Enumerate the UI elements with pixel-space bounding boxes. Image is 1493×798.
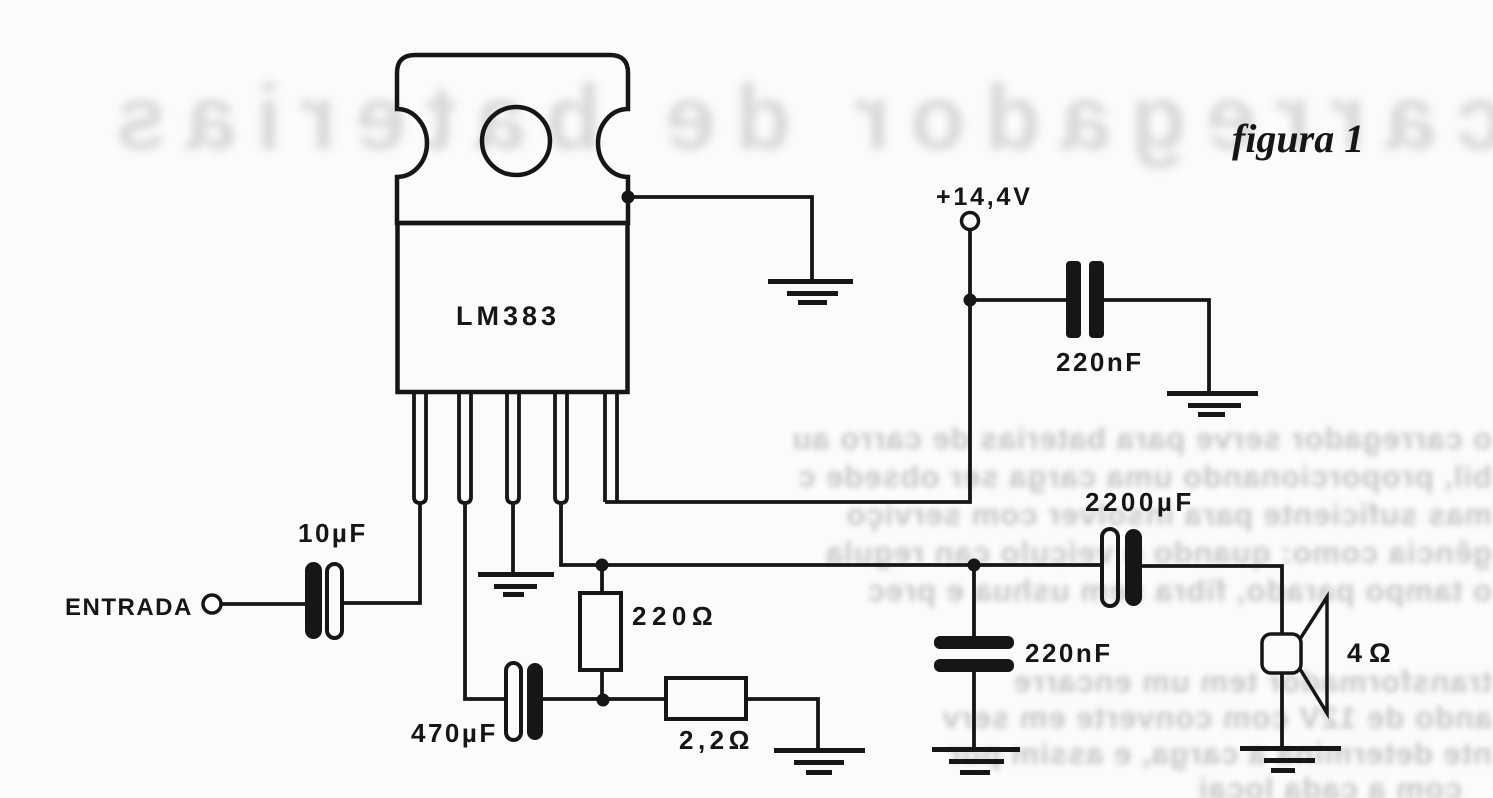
U1 pin 3 (507, 392, 519, 503)
svg-text:220Ω: 220Ω (632, 601, 718, 631)
wire input to C1 (221, 602, 305, 606)
ghost headline (bleed-through, mirrored) (55, 66, 1493, 170)
svg-text:+14,4V: +14,4V (936, 183, 1033, 211)
ghost paragraph B (bleed-through, mirrored) (700, 664, 1492, 700)
wire speaker to ground (1280, 673, 1284, 747)
U1 pin 5 (605, 392, 617, 502)
ground G6 (1240, 746, 1341, 773)
svg-text:220nF: 220nF (1025, 638, 1113, 668)
speaker LS1 (1262, 634, 1301, 673)
node feedback top (596, 559, 609, 572)
resistor R1 220 ohm (600, 565, 604, 593)
ground G5 (932, 747, 1020, 775)
U1 pin 2 (459, 392, 471, 503)
svg-text:figura 1: figura 1 (1232, 116, 1364, 161)
svg-text:470µF: 470µF (411, 718, 498, 748)
ground G2 (1167, 391, 1258, 417)
capacitor C4 220nF bottom (972, 565, 976, 636)
capacitor C2 2200uF (1102, 529, 1118, 606)
svg-text:LM383: LM383 (456, 301, 560, 331)
node tab (622, 191, 635, 204)
ground G4 (774, 748, 865, 775)
capacitor 220nF top (1066, 261, 1104, 338)
wire C2 to speaker (1142, 566, 1282, 634)
svg-text:220nF: 220nF (1056, 347, 1144, 377)
wire pin2 down (465, 503, 506, 699)
wire C1 to pin1 (342, 503, 420, 603)
input terminal (203, 595, 221, 613)
node output (968, 559, 981, 572)
U1 pin 1 (414, 392, 426, 503)
wire R2 to ground (746, 699, 818, 749)
wire pin3 to ground (511, 503, 515, 573)
wire tab to ground (628, 197, 812, 281)
svg-text:2,2Ω: 2,2Ω (679, 725, 754, 755)
resistor R2 2,2 ohm (666, 678, 746, 719)
capacitor C1 10uF (305, 562, 322, 639)
svg-text:10µF: 10µF (298, 518, 368, 548)
ghost paragraph A (bleed-through, mirrored) (750, 421, 1492, 457)
wire cap to ground (1104, 300, 1209, 392)
ground G3 (478, 572, 554, 597)
op-amp U1 LM383 tab outline (397, 55, 628, 223)
U1 pin 4 (555, 392, 567, 503)
node supply (964, 294, 977, 307)
wire supply rail down (605, 230, 970, 502)
ground G1 (768, 279, 853, 305)
wire main output line (602, 563, 1102, 567)
svg-text:2200µF: 2200µF (1085, 487, 1195, 517)
capacitor C3 470uF (506, 663, 521, 740)
U1 body (398, 223, 628, 392)
U1 tab/body divider (397, 221, 628, 225)
svg-text:4Ω: 4Ω (1347, 638, 1398, 668)
node feedback bottom (597, 694, 610, 707)
U1 mounting hole (482, 107, 550, 175)
supply terminal (962, 213, 979, 230)
wire pin4 to node (561, 503, 602, 565)
wire supply to C decoupling (970, 298, 1066, 302)
wire C3 to node (543, 697, 666, 701)
svg-text:ENTRADA: ENTRADA (65, 594, 193, 621)
